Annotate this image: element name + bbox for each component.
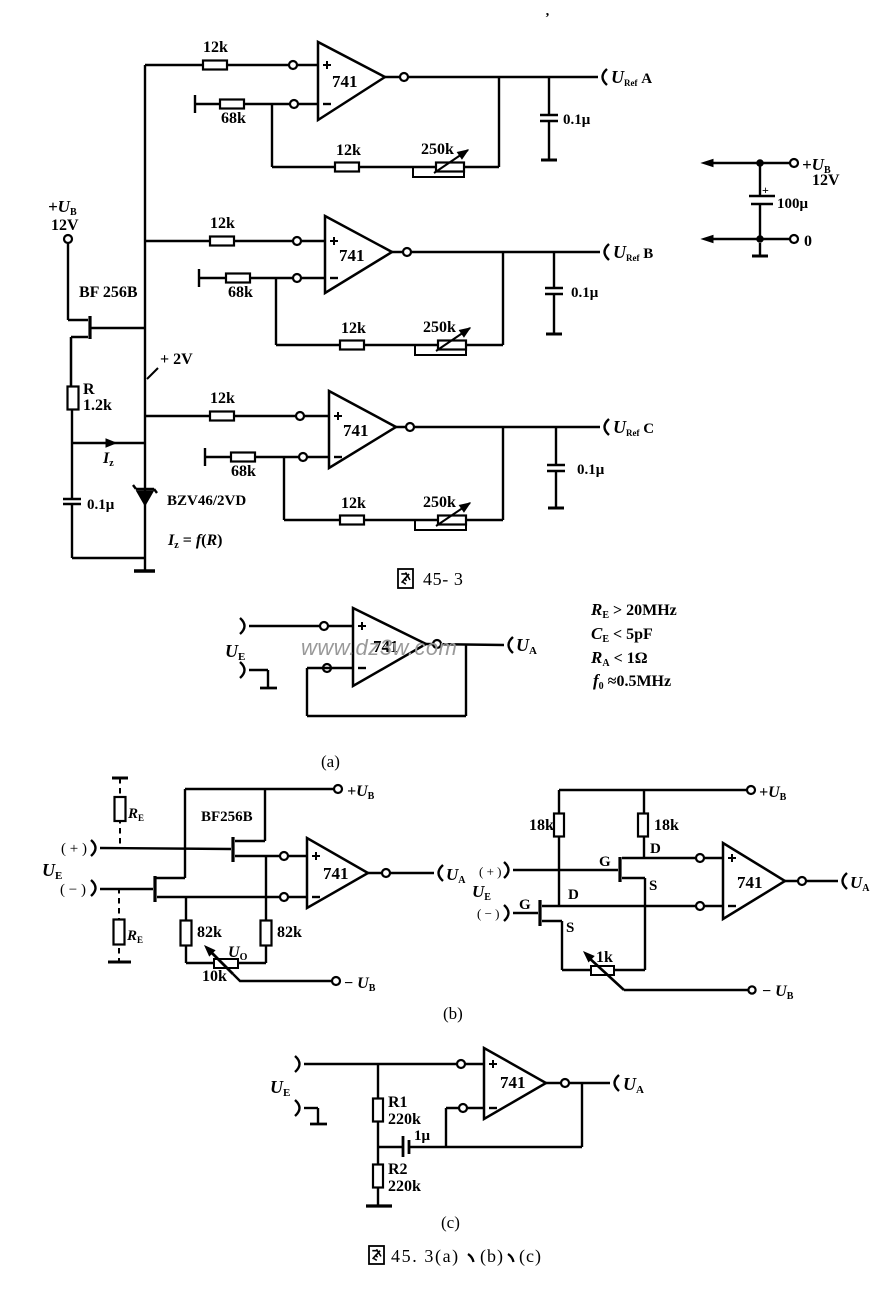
svg-text:(b): (b) — [480, 1246, 504, 1267]
svg-text:82k: 82k — [277, 924, 302, 941]
svg-text:1μ: 1μ — [414, 1128, 431, 1144]
svg-text:BF 256B: BF 256B — [79, 284, 138, 301]
svg-text:G: G — [599, 854, 611, 870]
svg-text:18k: 18k — [529, 817, 554, 834]
svg-text:S: S — [649, 878, 657, 894]
svg-text:741: 741 — [500, 1073, 526, 1092]
svg-text:10k: 10k — [202, 968, 227, 985]
svg-text:12k: 12k — [210, 215, 235, 232]
svg-text:+: + — [762, 183, 769, 197]
svg-text:12k: 12k — [210, 390, 235, 407]
svg-text:741: 741 — [737, 873, 763, 892]
svg-text:G: G — [519, 897, 531, 913]
svg-text:68k: 68k — [221, 110, 246, 127]
svg-text:45- 3: 45- 3 — [423, 569, 464, 589]
svg-text:741: 741 — [343, 421, 369, 440]
svg-text:’: ’ — [545, 11, 550, 26]
svg-text:RA < 1Ω: RA < 1Ω — [590, 648, 648, 669]
svg-text:68k: 68k — [228, 284, 253, 301]
svg-text:1.2k: 1.2k — [83, 397, 112, 414]
svg-text:0.1μ: 0.1μ — [563, 112, 591, 128]
svg-text:220k: 220k — [388, 1178, 421, 1195]
svg-text:BF256B: BF256B — [201, 809, 253, 825]
svg-text:741: 741 — [332, 72, 358, 91]
svg-text:R: R — [83, 381, 95, 398]
svg-text:+ 2V: + 2V — [160, 351, 193, 368]
svg-text:12k: 12k — [203, 39, 228, 56]
svg-text:f0 ≈0.5MHz: f0 ≈0.5MHz — [593, 671, 671, 692]
svg-text:0.1μ: 0.1μ — [87, 497, 115, 513]
svg-text:R2: R2 — [388, 1161, 408, 1178]
svg-text:(c): (c) — [519, 1246, 542, 1267]
svg-text:68k: 68k — [231, 463, 256, 480]
svg-text:12k: 12k — [336, 142, 361, 159]
svg-text:(a): (a) — [321, 752, 340, 771]
svg-text:741: 741 — [339, 246, 365, 265]
svg-text:(c): (c) — [441, 1213, 460, 1232]
svg-text:250k: 250k — [423, 494, 456, 511]
svg-text:741: 741 — [323, 864, 349, 883]
svg-text:45. 3(a): 45. 3(a) — [391, 1246, 460, 1267]
svg-text:www.dz3w.com: www.dz3w.com — [301, 635, 457, 660]
svg-text:D: D — [650, 841, 661, 857]
svg-text:CE < 5pF: CE < 5pF — [591, 624, 653, 645]
svg-text:12V: 12V — [812, 172, 840, 189]
svg-text:( − ): ( − ) — [60, 882, 86, 898]
svg-text:D: D — [568, 887, 579, 903]
svg-text:18k: 18k — [654, 817, 679, 834]
svg-text:0.1μ: 0.1μ — [577, 462, 605, 478]
svg-text:( − ): ( − ) — [477, 906, 500, 921]
svg-text:12k: 12k — [341, 320, 366, 337]
svg-text:S: S — [566, 920, 574, 936]
svg-text:( + ): ( + ) — [61, 841, 87, 857]
svg-text:(b): (b) — [443, 1004, 463, 1023]
svg-text:R1: R1 — [388, 1094, 408, 1111]
svg-text:BZV46/2VD: BZV46/2VD — [167, 493, 246, 509]
svg-text:82k: 82k — [197, 924, 222, 941]
svg-text:250k: 250k — [421, 141, 454, 158]
svg-text:1k: 1k — [596, 949, 613, 966]
svg-text:12k: 12k — [341, 495, 366, 512]
svg-text:100μ: 100μ — [777, 196, 809, 212]
svg-text:220k: 220k — [388, 1111, 421, 1128]
svg-text:250k: 250k — [423, 319, 456, 336]
svg-text:( + ): ( + ) — [479, 864, 502, 879]
svg-text:0: 0 — [804, 233, 812, 250]
svg-text:12V: 12V — [51, 217, 79, 234]
svg-text:0.1μ: 0.1μ — [571, 285, 599, 301]
